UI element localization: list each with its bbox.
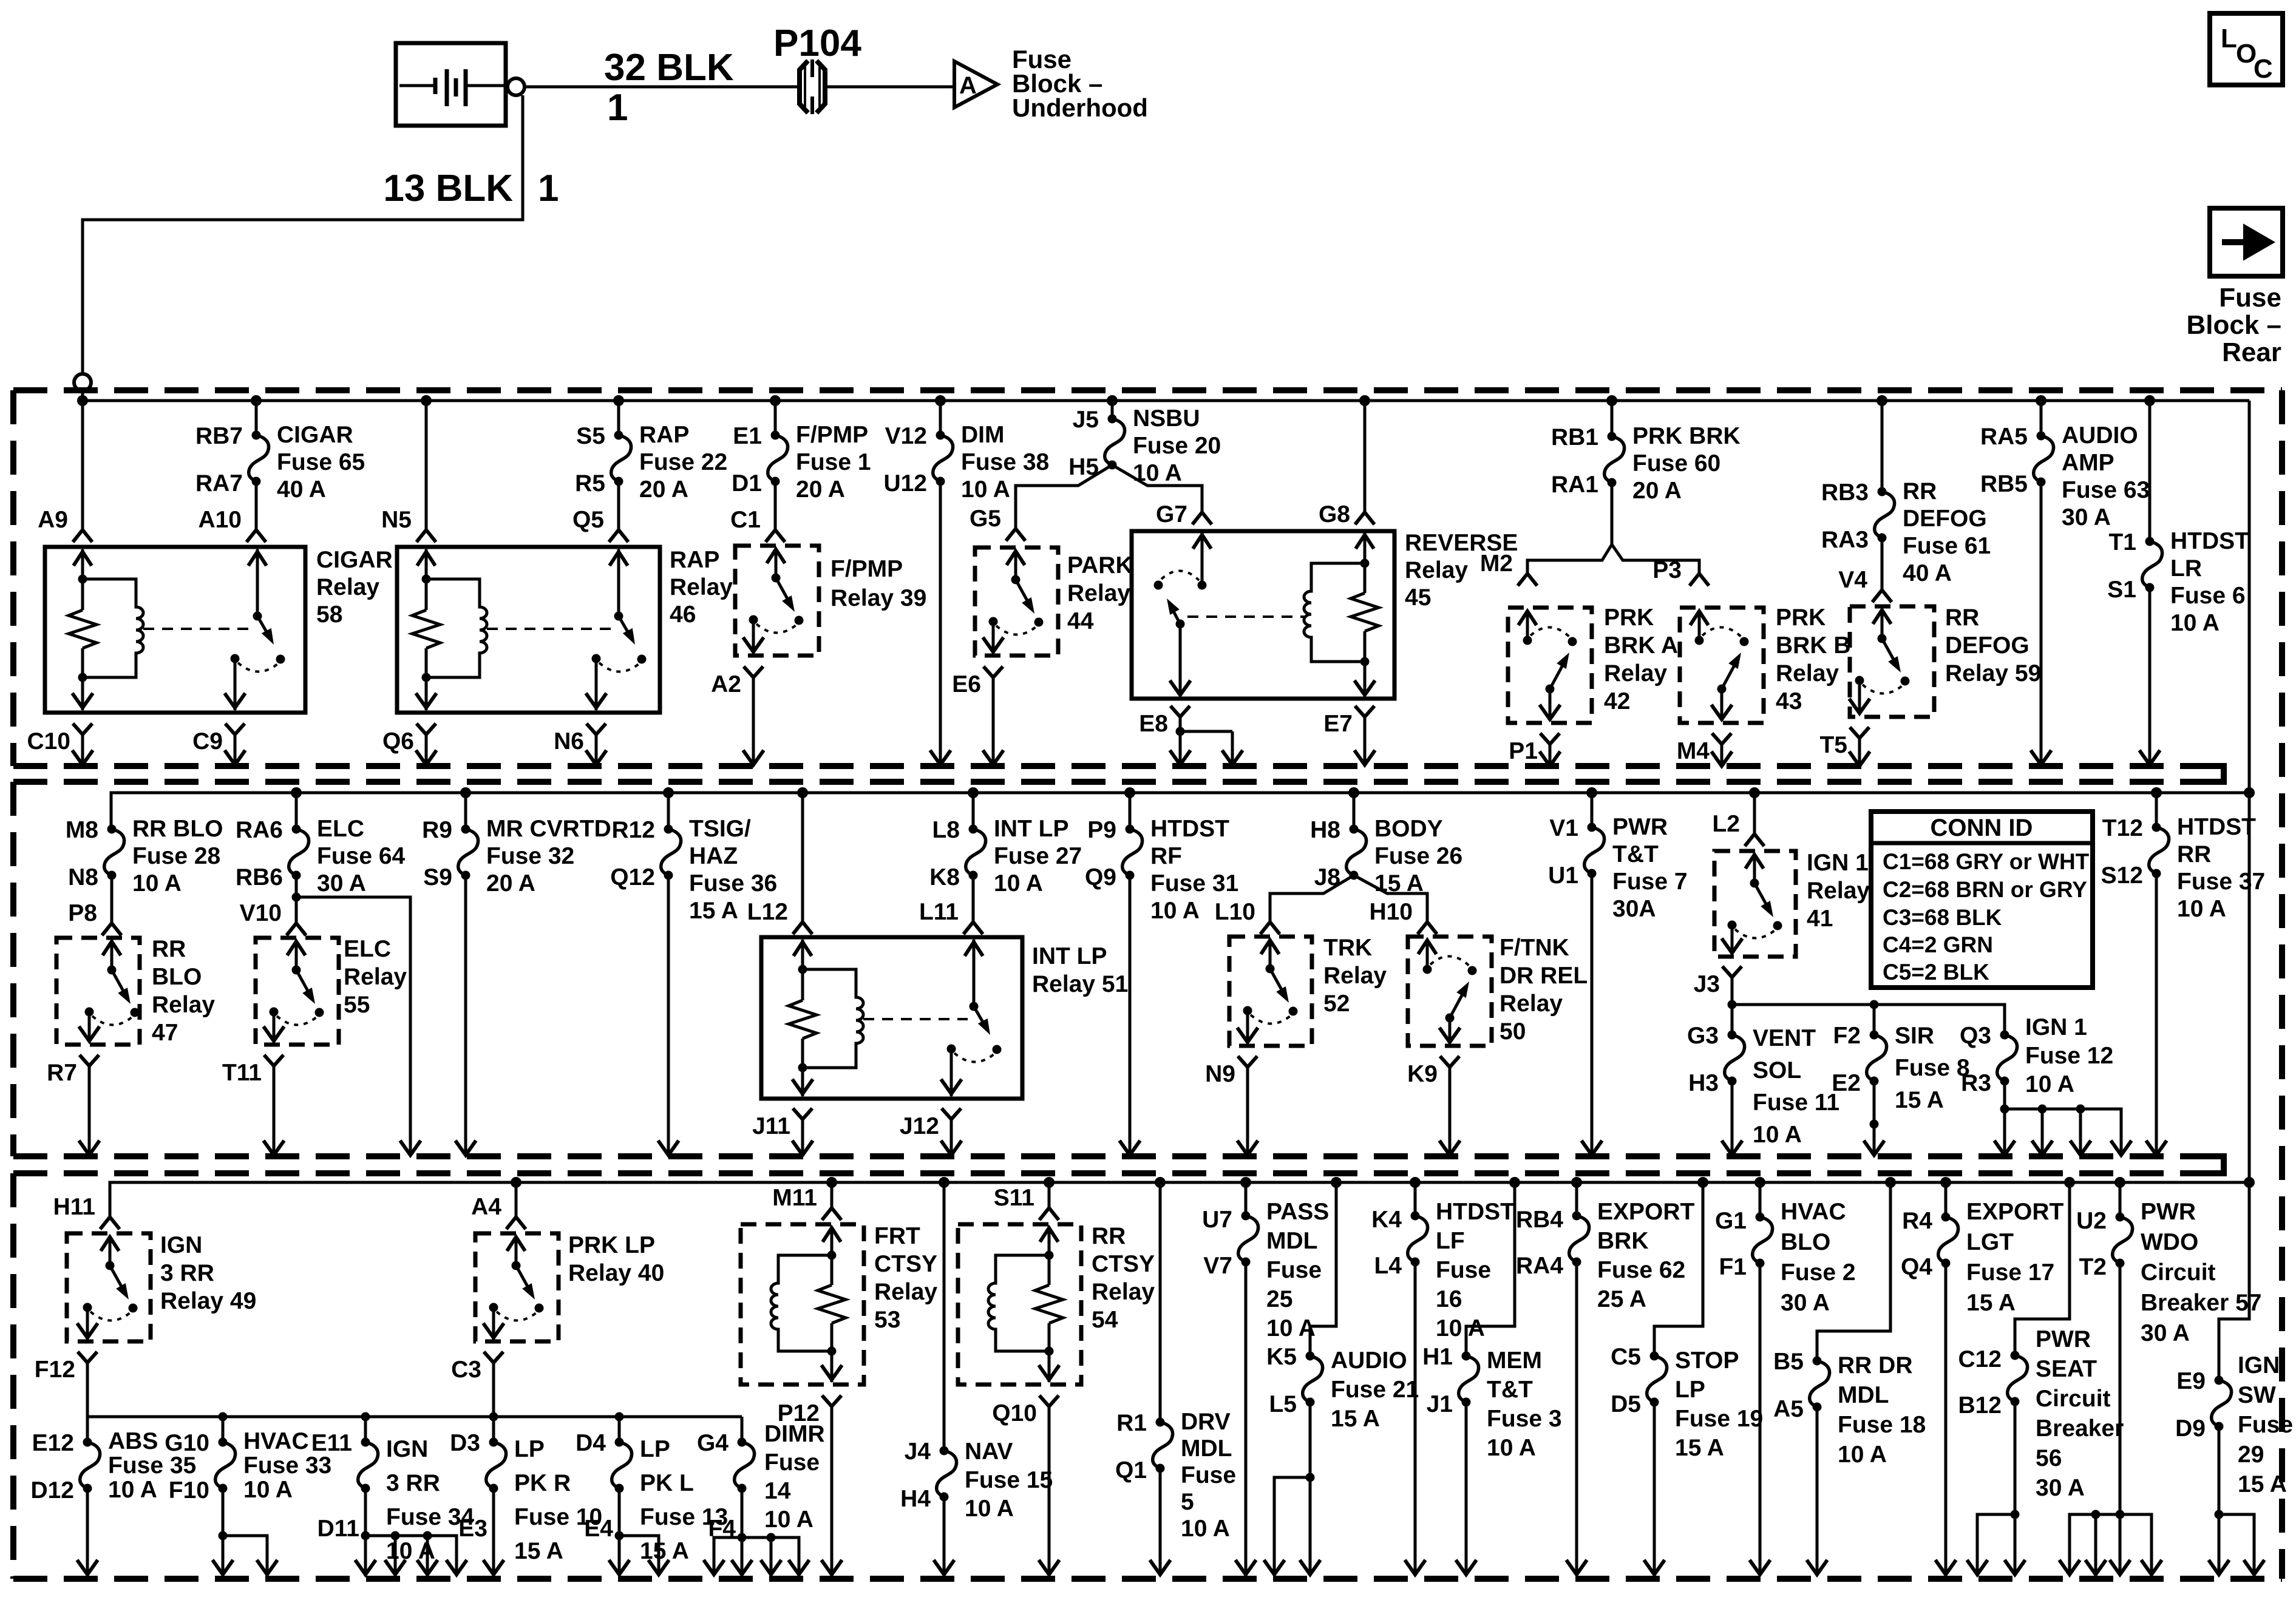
fuse EXPORT BRK Fuse 62 25A (RB4/RA4) [1516, 1182, 1695, 1312]
fuse RR DR MDL Fuse 18 10A (B5/A5) [1773, 1349, 1926, 1468]
svg-text:A2: A2 [711, 671, 741, 697]
svg-text:Fuse 61: Fuse 61 [1903, 533, 1991, 559]
svg-text:RR: RR [1092, 1223, 1126, 1249]
svg-text:Q9: Q9 [1085, 864, 1116, 890]
svg-text:P9: P9 [1087, 817, 1116, 843]
svg-text:Fuse 37: Fuse 37 [2177, 869, 2265, 895]
fuse LP PK L Fuse 13 15A (D4/E4) [576, 1412, 728, 1565]
bus junction [1885, 1177, 1896, 1188]
svg-text:25 A: 25 A [1597, 1286, 1646, 1312]
svg-text:30 A: 30 A [2036, 1475, 2085, 1501]
svg-text:Fuse 36: Fuse 36 [689, 870, 777, 897]
svg-text:RR: RR [1945, 605, 1979, 631]
svg-text:Fuse 12: Fuse 12 [2025, 1043, 2113, 1069]
svg-text:PWR: PWR [2141, 1199, 2196, 1225]
svg-text:Relay: Relay [1776, 660, 1839, 686]
bus junction [1940, 1177, 1951, 1188]
svg-text:L: L [2221, 24, 2237, 53]
svg-text:3 RR: 3 RR [160, 1260, 214, 1286]
svg-text:16: 16 [1436, 1286, 1462, 1312]
wire fuse 7 output to border [1591, 873, 1594, 1154]
fuse AUDIO Fuse 21 15A (K5/L5) [1266, 1344, 1419, 1432]
svg-text:Fuse 63: Fuse 63 [2062, 477, 2150, 503]
svg-text:10 A: 10 A [132, 870, 182, 897]
wire P104 to fuse block underhood [824, 86, 953, 89]
svg-text:41: 41 [1807, 906, 1833, 932]
svg-text:LP: LP [514, 1436, 545, 1462]
svg-text:U2: U2 [2076, 1208, 2107, 1234]
svg-text:Relay: Relay [1405, 557, 1468, 583]
svg-text:SOL: SOL [1753, 1057, 1801, 1083]
svg-text:G4: G4 [697, 1430, 729, 1456]
svg-text:C5: C5 [1611, 1344, 1641, 1370]
svg-text:WDO: WDO [2141, 1229, 2198, 1255]
svg-text:Fuse 32: Fuse 32 [486, 843, 574, 869]
svg-text:15 A: 15 A [2238, 1471, 2287, 1497]
bus junction [1348, 787, 1359, 798]
wire H4 output to border [943, 1497, 946, 1573]
svg-text:R9: R9 [422, 817, 452, 843]
svg-text:RA7: RA7 [195, 470, 243, 497]
svg-text:MEM: MEM [1487, 1347, 1542, 1374]
relay PRK LP Relay 40 [475, 1233, 559, 1341]
wire fuse 63 output to border [2040, 482, 2043, 764]
bus junction [1571, 1177, 1582, 1188]
wire V7 output to border [1245, 1262, 1248, 1573]
fuse HTDST LF Fuse 16 10A (K4/L4) [1371, 1182, 1515, 1341]
wire C3 to feed rail [492, 1370, 495, 1417]
svg-text:F/PMP: F/PMP [796, 422, 868, 448]
wire B12 output split to border [1967, 1402, 2025, 1575]
terminal ring at fuse block rear entry [74, 374, 91, 391]
svg-text:30 A: 30 A [317, 870, 366, 897]
bus junction [1044, 1177, 1055, 1188]
svg-text:Relay: Relay [316, 574, 379, 600]
bus junction [968, 787, 979, 798]
svg-text:K4: K4 [1371, 1207, 1402, 1233]
svg-text:Fuse: Fuse [2238, 1412, 2293, 1438]
wire 13 BLK battery to fuse block rear [83, 95, 523, 374]
svg-text:Circuit: Circuit [2141, 1259, 2216, 1286]
wire N9 to border [1246, 1074, 1249, 1154]
svg-text:Fuse 7: Fuse 7 [1612, 869, 1688, 895]
wire 32 BLK from battery to P104 [525, 86, 801, 89]
svg-text:Fuse 33: Fuse 33 [243, 1453, 331, 1479]
svg-text:Q3: Q3 [1960, 1023, 1991, 1049]
svg-text:LR: LR [2170, 555, 2202, 581]
bus junction [663, 787, 674, 798]
svg-text:Fuse 31: Fuse 31 [1150, 870, 1238, 897]
bus junction [2144, 395, 2155, 406]
wire A2 to border [752, 685, 755, 764]
fuse EXPORT LGT Fuse 17 15A (R4/Q4) [1901, 1182, 2064, 1316]
wire D9 output split to border [2209, 1426, 2264, 1575]
svg-text:P3: P3 [1652, 557, 1682, 583]
svg-text:BRK: BRK [1597, 1228, 1649, 1254]
bus junction [77, 395, 88, 406]
svg-text:G10: G10 [165, 1430, 209, 1456]
wire A5 output to border [1816, 1407, 1819, 1573]
wire R7 to border [88, 1073, 91, 1154]
fuse BODY Fuse 26 15A (H8/J8) [1310, 793, 1462, 897]
wire RA4 output to border [1575, 1262, 1578, 1573]
svg-text:52: 52 [1323, 991, 1350, 1017]
bus junction [1240, 1177, 1251, 1188]
svg-text:RR: RR [152, 936, 186, 962]
svg-text:BRK B: BRK B [1776, 632, 1851, 659]
wire bus to CIGAR relay pin A9 [81, 401, 84, 529]
svg-text:30 A: 30 A [1781, 1290, 1830, 1316]
bus junction [1509, 1177, 1520, 1188]
svg-text:H8: H8 [1310, 817, 1340, 843]
fuse MEM T&T Fuse 3 10A (H1/J1) [1422, 1344, 1561, 1461]
svg-text:Q12: Q12 [610, 864, 655, 890]
svg-text:G1: G1 [1715, 1208, 1747, 1234]
svg-text:Fuse 28: Fuse 28 [132, 843, 220, 869]
svg-text:E11: E11 [311, 1430, 352, 1456]
svg-text:Fuse 62: Fuse 62 [1597, 1257, 1685, 1283]
wire fuse 28 to pin P8 [110, 875, 114, 923]
wire J3 to branch rail [1728, 985, 2005, 1035]
bus junction [1606, 395, 1617, 406]
svg-text:TRK: TRK [1323, 935, 1372, 961]
svg-text:Fuse 2: Fuse 2 [1781, 1259, 1856, 1286]
svg-text:C12: C12 [1958, 1346, 2002, 1372]
svg-text:N9: N9 [1205, 1061, 1235, 1087]
svg-text:E7: E7 [1323, 711, 1353, 737]
svg-text:20 A: 20 A [639, 476, 688, 503]
svg-text:T2: T2 [2079, 1254, 2107, 1280]
svg-text:PRK LP: PRK LP [568, 1232, 655, 1258]
svg-text:T12: T12 [2102, 815, 2143, 841]
svg-text:40 A: 40 A [1903, 560, 1952, 586]
svg-text:STOP: STOP [1675, 1347, 1739, 1374]
LOC legend box top right [2210, 13, 2283, 85]
svg-text:H3: H3 [1688, 1070, 1719, 1096]
wire fuse 27 to pin L11 [972, 875, 975, 921]
relay IGN 3 RR Relay 49 [67, 1233, 151, 1341]
svg-text:PWR: PWR [1612, 814, 1668, 840]
wire J1 output to border [1465, 1402, 1468, 1573]
svg-text:A: A [959, 72, 977, 99]
wire bus to RR CTSY relay [1048, 1182, 1051, 1208]
battery positive terminal ring [508, 78, 525, 95]
bus junction [826, 1177, 837, 1188]
svg-text:Q10: Q10 [992, 1400, 1037, 1426]
svg-text:P104: P104 [773, 22, 861, 64]
svg-text:M4: M4 [1677, 738, 1710, 764]
svg-text:AMP: AMP [2062, 450, 2114, 476]
bus junction [291, 787, 302, 798]
svg-text:10 A: 10 A [1150, 898, 1200, 924]
svg-text:HTDST: HTDST [1436, 1199, 1515, 1225]
svg-text:J4: J4 [905, 1439, 931, 1465]
relay RR CTSY Relay 54 [958, 1224, 1081, 1385]
svg-text:E8: E8 [1139, 711, 1168, 737]
svg-text:Fuse 22: Fuse 22 [639, 449, 727, 475]
wire K9 to border [1449, 1074, 1452, 1154]
svg-text:LP: LP [1675, 1377, 1705, 1403]
bus junction [2064, 1177, 2075, 1188]
fuse PRK BRK Fuse 60 20A (RB1/RA1) [1551, 401, 1741, 504]
fuse NAV Fuse 15 10A (J4/H4) [900, 1182, 1053, 1522]
svg-text:Relay: Relay [1604, 660, 1667, 686]
fuse block rear row1 dashed border [13, 390, 2282, 1579]
svg-text:V1: V1 [1549, 815, 1578, 841]
svg-text:Relay: Relay [152, 992, 215, 1018]
svg-text:RA5: RA5 [1980, 424, 2028, 450]
fuse MR CVRTD Fuse 32 20A (R9/S9) [422, 793, 611, 897]
svg-text:15 A: 15 A [689, 898, 738, 924]
svg-text:D4: D4 [576, 1430, 606, 1456]
wire Q10 to border [1048, 1414, 1051, 1573]
wire split H5 to G5 and G7 [1016, 465, 1202, 528]
svg-text:Q4: Q4 [1901, 1254, 1932, 1280]
svg-text:Relay: Relay [670, 574, 733, 600]
wire fuse 1 to pin C1 [774, 481, 777, 529]
fuse PASS MDL Fuse 25 10A (U7/V7) [1202, 1182, 1329, 1341]
svg-text:15 A: 15 A [1966, 1290, 2016, 1316]
svg-text:E1: E1 [733, 423, 762, 449]
svg-text:J11: J11 [752, 1113, 790, 1139]
svg-text:DEFOG: DEFOG [1903, 506, 1987, 532]
legend CONN ID box [1871, 812, 2093, 988]
wire F1 output to border [1759, 1263, 1762, 1573]
svg-text:MDL: MDL [1838, 1382, 1889, 1408]
svg-text:54: 54 [1092, 1307, 1118, 1333]
svg-text:L11: L11 [919, 899, 959, 925]
svg-text:10 A: 10 A [1436, 1315, 1485, 1341]
fuse CIGAR Fuse 65 40A (RB7/RA7) [195, 401, 365, 503]
wire F10 output split to border [212, 1488, 277, 1575]
svg-text:K8: K8 [929, 864, 960, 890]
svg-text:PK R: PK R [514, 1470, 571, 1496]
svg-text:10 A: 10 A [243, 1477, 293, 1503]
wire bus to INT LP relay pin L12 [801, 793, 804, 921]
fuse STOP LP Fuse 19 15A (C5/D5) [1611, 1344, 1763, 1461]
svg-text:HTDST: HTDST [1150, 816, 1229, 842]
svg-text:50: 50 [1500, 1019, 1526, 1045]
svg-text:SW: SW [2238, 1382, 2276, 1408]
svg-text:F/PMP: F/PMP [830, 556, 903, 582]
svg-text:45: 45 [1405, 585, 1431, 611]
svg-text:F1: F1 [1719, 1254, 1747, 1280]
svg-text:T&T: T&T [1612, 841, 1659, 867]
fuse HTDST LR Fuse 6 10A (T1/S1) [2107, 401, 2249, 636]
svg-text:Fuse: Fuse [1266, 1257, 1322, 1283]
svg-text:Relay: Relay [874, 1279, 937, 1305]
fuse INT LP Fuse 27 10A (L8/K8) [929, 793, 1082, 897]
svg-text:J3: J3 [1694, 971, 1720, 997]
svg-text:10 A: 10 A [764, 1507, 813, 1533]
svg-text:M2: M2 [1480, 551, 1513, 577]
svg-text:E4: E4 [584, 1516, 613, 1542]
svg-text:G7: G7 [1156, 501, 1187, 527]
fuse F/PMP Fuse 1 20A (E1/D1) [732, 401, 871, 503]
svg-text:HVAC: HVAC [243, 1428, 309, 1454]
svg-text:PASS: PASS [1266, 1199, 1329, 1225]
bus junction [251, 395, 262, 406]
fuse HTDST RR Fuse 37 10A (T12/S12) [2101, 793, 2266, 922]
wire D11 output fan-out to border [355, 1488, 467, 1575]
fuse VENT SOL Fuse 11 10A (G3/H3) [1687, 1023, 1839, 1148]
svg-text:AUDIO: AUDIO [2062, 422, 2138, 449]
svg-text:L8: L8 [932, 817, 960, 843]
svg-text:J5: J5 [1073, 407, 1099, 433]
svg-text:58: 58 [316, 602, 342, 628]
svg-text:BLO: BLO [1781, 1229, 1830, 1255]
svg-text:V4: V4 [1838, 567, 1867, 593]
fuse HTDST RF Fuse 31 10A (P9/Q9) [1085, 793, 1238, 924]
svg-text:10 A: 10 A [1838, 1442, 1887, 1468]
svg-text:56: 56 [2036, 1445, 2062, 1471]
svg-text:10 A: 10 A [965, 1496, 1014, 1522]
svg-text:S1: S1 [2107, 577, 2136, 603]
row1 bus right-edge feed down through row2 to row3 and IGN SW [2219, 401, 2249, 1380]
row3 power bus [110, 1182, 2249, 1216]
row3 left feed rail [87, 1412, 742, 1443]
svg-text:N6: N6 [554, 728, 584, 754]
svg-text:RR DR: RR DR [1838, 1352, 1913, 1378]
svg-text:A9: A9 [38, 507, 68, 533]
svg-text:L10: L10 [1215, 899, 1255, 925]
svg-text:Relay: Relay [1807, 878, 1870, 904]
svg-text:U1: U1 [1548, 863, 1578, 889]
wire fuse 37 output to border [2155, 873, 2158, 1154]
wire P12 to border [830, 1414, 834, 1573]
svg-text:Fuse 27: Fuse 27 [994, 843, 1082, 869]
svg-text:13 BLK: 13 BLK [383, 168, 513, 209]
svg-text:C3: C3 [451, 1357, 481, 1383]
fuse RR DEFOG Fuse 61 40A (RB3/RA3) [1821, 401, 1991, 586]
circuit breaker PWR SEAT Circuit Breaker 56 (C12/B12) [1958, 1326, 2124, 1501]
wire bus staircase to AUDIO fuse [1310, 1182, 1336, 1356]
svg-text:L2: L2 [1712, 811, 1740, 837]
svg-text:LGT: LGT [1966, 1229, 2014, 1255]
svg-text:Relay: Relay [344, 964, 407, 990]
svg-text:ABS: ABS [108, 1428, 158, 1454]
svg-text:RB4: RB4 [1516, 1207, 1563, 1233]
wire fuse 65 to pin A10 [255, 481, 258, 529]
svg-text:15 A: 15 A [640, 1538, 689, 1564]
svg-text:40 A: 40 A [277, 476, 326, 503]
bus junction [1331, 1177, 1342, 1188]
svg-text:HVAC: HVAC [1781, 1199, 1846, 1225]
wire split J8 to L10 and H10 [1270, 875, 1427, 921]
svg-text:PRK: PRK [1776, 605, 1826, 631]
relay RR DEFOG Relay 59 [1849, 606, 1934, 717]
relay RR BLO Relay 47 [56, 938, 140, 1045]
svg-text:CTSY: CTSY [874, 1251, 937, 1277]
svg-text:S12: S12 [2101, 863, 2143, 889]
svg-text:J12: J12 [900, 1113, 939, 1139]
svg-text:HAZ: HAZ [689, 843, 738, 869]
svg-text:Relay 59: Relay 59 [1945, 660, 2041, 686]
svg-text:S5: S5 [576, 423, 605, 449]
fuse IGN 3 RR Fuse 34 10A (E11/D11) [311, 1417, 475, 1564]
svg-text:S11: S11 [994, 1185, 1034, 1211]
svg-text:C1: C1 [730, 507, 761, 533]
svg-text:MDL: MDL [1181, 1436, 1232, 1462]
fuse SIR Fuse 8 15A (F2/E2) [1832, 1023, 1969, 1113]
svg-text:Fuse 1: Fuse 1 [796, 449, 871, 475]
svg-text:T11: T11 [222, 1060, 262, 1086]
wire bus to RAP relay pin N5 [425, 401, 428, 529]
svg-text:D12: D12 [30, 1477, 74, 1503]
svg-text:G8: G8 [1319, 501, 1350, 527]
fuse RAP Fuse 22 20A (S5/R5) [575, 401, 727, 503]
svg-text:C10: C10 [27, 728, 70, 754]
svg-text:Q5: Q5 [572, 507, 604, 533]
svg-text:H10: H10 [1369, 899, 1413, 925]
svg-text:L5: L5 [1269, 1391, 1297, 1417]
wire bus staircase to RR DR MDL fuse [1817, 1182, 1890, 1361]
svg-text:Fuse: Fuse [1436, 1257, 1491, 1283]
fuse TSIG/HAZ Fuse 36 15A (R12/Q12) [610, 793, 777, 924]
svg-text:A5: A5 [1773, 1396, 1804, 1422]
svg-text:Fuse 35: Fuse 35 [108, 1453, 196, 1479]
svg-text:R3: R3 [1961, 1070, 1991, 1096]
bus junction [1410, 1177, 1421, 1188]
bus junction [939, 1177, 949, 1188]
svg-text:RR: RR [2177, 841, 2211, 867]
svg-text:PRK BRK: PRK BRK [1632, 423, 1741, 449]
wire fuse 31 output to border [1129, 875, 1132, 1154]
svg-text:30 A: 30 A [2062, 504, 2111, 531]
bus junction [460, 787, 471, 798]
svg-text:SEAT: SEAT [2036, 1356, 2097, 1382]
svg-text:RB5: RB5 [1980, 471, 2028, 497]
svg-text:CIGAR: CIGAR [316, 547, 393, 573]
svg-text:DEFOG: DEFOG [1945, 632, 2029, 659]
svg-text:55: 55 [344, 992, 370, 1018]
wire C9 to border [234, 742, 237, 764]
svg-text:V12: V12 [885, 423, 927, 449]
svg-text:E3: E3 [458, 1516, 487, 1542]
wire fuse 6 output to border [2148, 588, 2152, 764]
svg-text:32 BLK: 32 BLK [604, 47, 734, 89]
fuse block rear row3 dashed border [13, 1173, 2282, 1579]
wire J12 to border [950, 1127, 953, 1154]
svg-text:INT LP: INT LP [1032, 943, 1107, 969]
svg-text:Fuse 17: Fuse 17 [1966, 1259, 2054, 1286]
svg-text:Fuse 19: Fuse 19 [1675, 1406, 1763, 1432]
svg-text:TSIG/: TSIG/ [689, 816, 751, 842]
svg-text:Fuse: Fuse [1181, 1462, 1236, 1488]
svg-text:Fuse 18: Fuse 18 [1838, 1412, 1926, 1438]
Fuse Block - Rear off-page arrow box [2210, 208, 2283, 276]
svg-text:53: 53 [874, 1307, 900, 1333]
svg-text:Breaker 57: Breaker 57 [2141, 1290, 2262, 1316]
svg-text:C3=68 BLK: C3=68 BLK [1883, 905, 2002, 930]
svg-text:INT LP: INT LP [994, 816, 1069, 842]
relay ELC Relay 55 [256, 938, 339, 1045]
svg-text:CIGAR: CIGAR [277, 422, 353, 448]
bus junction [1124, 787, 1135, 798]
svg-text:10 A: 10 A [1181, 1516, 1230, 1542]
fuse PWR WDO Circuit Breaker 57 30A (U2/T2) [2076, 1182, 2261, 1346]
fuse IGN 1 Fuse 12 10A (Q3/R3) [1960, 1014, 2113, 1097]
wire fuse 22 to pin Q5 [617, 481, 620, 529]
svg-text:CONN ID: CONN ID [1931, 815, 2033, 841]
battery G1 (in box) [396, 43, 506, 126]
svg-text:F2: F2 [1833, 1023, 1861, 1049]
svg-text:H11: H11 [53, 1194, 95, 1220]
svg-text:Fuse 8: Fuse 8 [1895, 1055, 1970, 1081]
relay PARK Relay 44 [975, 547, 1058, 656]
svg-text:RR: RR [1903, 478, 1937, 504]
svg-text:BODY: BODY [1374, 816, 1443, 842]
